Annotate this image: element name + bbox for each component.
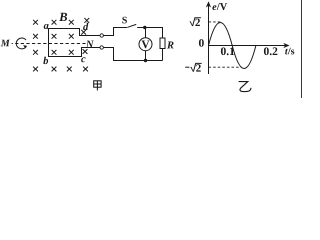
x row3 xyxy=(33,50,38,55)
x row4 xyxy=(33,67,38,72)
corner label d xyxy=(83,23,88,30)
origin label 0 xyxy=(199,39,204,47)
page border line right xyxy=(301,0,303,98)
wire: junction to voltmeter xyxy=(145,28,147,38)
caption jia (drawn CJK) xyxy=(94,81,101,91)
wire: voltmeter to bottom rail xyxy=(145,51,147,61)
wire: resistor to bottom rail xyxy=(162,49,164,61)
terminal B xyxy=(100,46,103,49)
axis label t/s xyxy=(285,49,288,55)
dashed level -sqrt2 xyxy=(209,66,242,68)
motor label M xyxy=(1,40,10,47)
wire: terminal B to bottom rail xyxy=(103,48,162,61)
label -sqrt2 xyxy=(196,64,201,71)
tick label 0.2 xyxy=(264,47,278,55)
wire: terminal A to top rail xyxy=(103,28,127,36)
caption yi (drawn CJK) xyxy=(239,82,251,92)
rotation axis (dashed) xyxy=(12,43,13,45)
graph horizontal axis xyxy=(208,45,287,47)
field label B xyxy=(59,13,67,21)
tick label 0.1 xyxy=(221,47,234,55)
junction dot bottom xyxy=(144,59,147,62)
resistor label R xyxy=(167,42,174,49)
rotation symbol xyxy=(16,38,27,49)
wire: switch to right branch xyxy=(137,28,162,39)
axle label N xyxy=(86,41,94,48)
x row2 xyxy=(33,34,38,39)
axis label e/V xyxy=(212,5,216,10)
corner label b xyxy=(43,57,48,64)
voltmeter V xyxy=(139,38,152,51)
sine curve xyxy=(209,23,256,69)
corner label a xyxy=(44,24,49,29)
resistor R xyxy=(160,38,165,49)
switch S blade xyxy=(128,24,137,27)
coil loop abcd xyxy=(49,29,101,57)
x row1 xyxy=(33,20,38,25)
corner label c xyxy=(81,57,85,62)
magnetic field x marks xyxy=(33,18,89,71)
junction dot top xyxy=(143,26,146,29)
switch label S xyxy=(122,17,127,24)
graph vertical axis xyxy=(208,4,210,74)
dashed level +sqrt2 xyxy=(209,21,221,23)
terminal A xyxy=(100,34,103,37)
label sqrt2 xyxy=(195,19,200,26)
